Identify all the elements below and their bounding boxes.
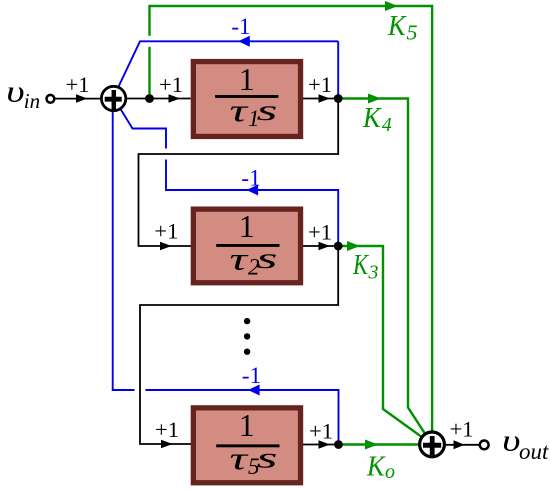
wire input vin to summer U1 [54,98,114,100]
arrowhead summer U1 to block G1 [169,94,181,103]
svg-text:o: o [385,461,395,483]
svg-text:5: 5 [407,20,418,44]
block G5 integrator 1/tau5s [193,408,300,483]
svg-text:K: K [362,103,382,134]
wire K4 tap from node B down to output summer U2 [338,99,432,445]
node C junction dot [334,242,343,251]
svg-text:s: s [257,95,278,127]
arrowhead block G1 output [319,94,331,103]
arrowhead green K4 [368,94,381,104]
wire block G2 output to node C [303,245,338,247]
svg-text:out: out [519,439,549,464]
svg-text:+1: +1 [308,220,332,245]
arrowhead green K5 [385,1,398,11]
wire blue feedback -1 from node C to input summer U1 [114,99,338,247]
svg-text:τ: τ [230,240,250,276]
wire K3 tap from node C down to output summer U2 [338,246,432,444]
wire blue feedback -1 from node D to input summer U1 [113,105,339,445]
terminal vin [47,95,55,103]
wire output summer U2 to vout terminal [432,444,480,446]
block G1 integrator 1/tau1s [193,62,300,137]
svg-text:K: K [387,11,407,42]
svg-text:τ: τ [230,440,250,476]
arrowhead blue feedback row5 [248,385,260,396]
svg-text:τ: τ [230,92,250,128]
arrowhead block G5 input [161,440,173,449]
svg-text:s: s [257,243,278,275]
svg-text:-1: -1 [231,14,250,39]
svg-text:3: 3 [368,261,379,283]
svg-text:4: 4 [382,114,392,136]
svg-text:υ: υ [502,423,520,458]
arrowhead block G5 output [319,440,331,449]
svg-text:in: in [24,89,40,113]
svg-text:+1: +1 [450,416,474,441]
block G2 integrator 1/tau2s [193,209,300,283]
arrowhead block G2 input [160,242,172,251]
svg-text:s: s [257,442,278,474]
arrowhead output wire [454,440,465,449]
wire Ko tap from node D to output summer U2 [339,443,432,445]
arrowhead green K3 [347,241,360,251]
svg-text:+1: +1 [309,418,333,443]
svg-text:+1: +1 [154,219,178,244]
wire chain node B down and left into block G2 input [139,99,339,247]
svg-text:υ: υ [6,74,24,109]
wire chain node C down and left into block G5 input [140,246,338,444]
arrowhead block G2 output [319,242,331,251]
svg-text:1: 1 [239,209,255,244]
node A junction dot [145,94,154,103]
node B junction dot [334,94,343,103]
wire summer U1 to block G1 with node A [114,98,191,100]
wire K5 tap from node A up and across top to output summer [150,6,433,438]
summer U1 input summing junction [101,86,125,110]
svg-text:+1: +1 [155,417,179,442]
arrowhead blue feedback row1 [238,36,250,47]
svg-text:+1: +1 [308,72,332,97]
svg-text:+1: +1 [159,72,183,97]
wire block G1 output to node B [303,98,338,100]
arrowhead blue feedback row2 [247,185,259,196]
terminal vout [480,441,489,450]
summer U2 output summing junction [420,432,445,457]
ellipsis dots for omitted stages [244,318,250,355]
wire block G5 output to node D [303,444,339,446]
arrowhead input wire [76,94,88,103]
arrowhead green Ko [365,440,378,450]
svg-text:-1: -1 [241,165,260,190]
svg-text:K: K [366,452,386,483]
svg-text:-1: -1 [242,363,261,388]
svg-text:1: 1 [239,408,255,443]
node D junction dot [334,440,343,449]
svg-text:+1: +1 [66,72,90,97]
wire blue feedback -1 from node B to input summer U1 [116,41,339,98]
svg-text:K: K [352,250,369,281]
